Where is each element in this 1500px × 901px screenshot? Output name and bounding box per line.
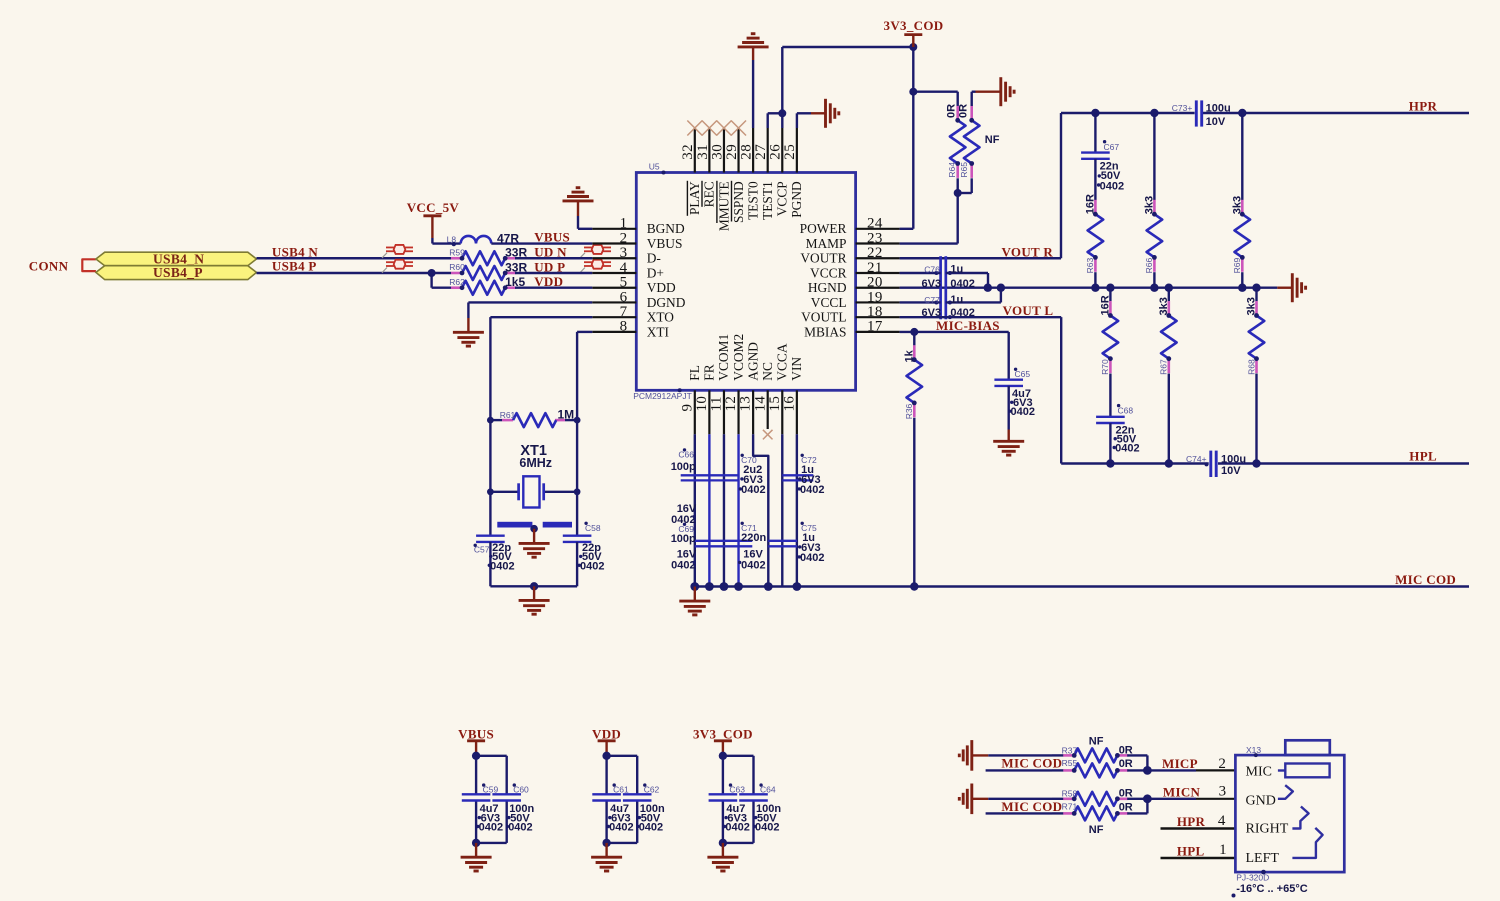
- wire (D+ pullup drop): [432, 273, 451, 288]
- svg-text:24: 24: [867, 216, 883, 232]
- net label MIC-BIAS: [936, 318, 1000, 333]
- wire VCCR (pin 21): [900, 271, 941, 275]
- svg-text:23: 23: [867, 230, 883, 246]
- port USB4_N: [96, 251, 257, 266]
- resistor R37 0R NF: [1052, 745, 1128, 762]
- svg-text:R71: R71: [1062, 802, 1078, 812]
- capacitor C73 100u: [1172, 100, 1202, 126]
- svg-text:X13: X13: [1246, 745, 1261, 755]
- svg-text:VOUTR: VOUTR: [800, 251, 846, 266]
- wire HPL rail: [1061, 459, 1469, 467]
- svg-text:R62: R62: [449, 277, 465, 287]
- svg-text:R58: R58: [1062, 789, 1078, 799]
- svg-text:10V: 10V: [1221, 465, 1241, 477]
- svg-text:0402: 0402: [609, 822, 633, 834]
- ground (pin 1 BGND): [563, 188, 594, 229]
- svg-text:0402: 0402: [1011, 406, 1035, 418]
- U5 bottom pin stubs 9-16: [695, 390, 797, 434]
- svg-text:HGND: HGND: [808, 280, 847, 295]
- svg-text:0402: 0402: [741, 559, 765, 571]
- capacitor C68 22n: [1096, 374, 1133, 464]
- svg-text:0402: 0402: [741, 484, 765, 496]
- net label VOUT R: [1002, 245, 1054, 260]
- svg-text:-16°C .. +65°C: -16°C .. +65°C: [1236, 883, 1308, 895]
- ground (3V3_COD group): [707, 857, 738, 871]
- wire crystal bottom: [490, 582, 577, 600]
- wire 3V3_COD top: [782, 43, 917, 51]
- svg-text:C67: C67: [1104, 142, 1120, 152]
- wire pin 16 column: [796, 434, 798, 586]
- resistor R71 0R NF: [1052, 802, 1128, 821]
- value 1u 6V3 0402 (C72): [798, 464, 825, 496]
- svg-text:U5: U5: [649, 162, 660, 172]
- wire UD_N (R59 to pin 3): [515, 257, 592, 259]
- svg-text:16: 16: [781, 396, 797, 412]
- svg-text:VCCR: VCCR: [810, 265, 847, 280]
- part number PJ-320D: [1236, 870, 1269, 883]
- wire AGND bottom rail / MIC COD line: [690, 582, 1469, 601]
- svg-text:MIC COD: MIC COD: [1001, 799, 1062, 814]
- svg-text:3V3_COD: 3V3_COD: [693, 726, 753, 741]
- svg-text:HPL: HPL: [1409, 449, 1437, 464]
- ground (pin 28 TEST0): [738, 34, 769, 128]
- svg-text:R37: R37: [1062, 745, 1078, 755]
- svg-text:SSPND: SSPND: [731, 181, 746, 223]
- wire C76 right to HGND: [946, 271, 988, 288]
- net label MIC COD (right): [1395, 572, 1456, 587]
- label XT1: [520, 443, 547, 459]
- power VBUS decoupling group: [458, 726, 534, 857]
- resistor R67 3k3: [1158, 288, 1177, 464]
- svg-text:3k3: 3k3: [1231, 196, 1243, 214]
- value 33R (R60): [505, 260, 527, 274]
- wire TEST1 jog (pin 27): [768, 113, 783, 128]
- resistor R70 16R: [1099, 288, 1118, 375]
- svg-text:0402: 0402: [639, 822, 663, 834]
- svg-text:REC: REC: [702, 181, 717, 207]
- net label MIC COD (upper): [1001, 755, 1062, 770]
- ground (PGND): [826, 99, 839, 128]
- resistor R36 1k: [903, 332, 922, 587]
- net label UD_P: [534, 259, 565, 274]
- svg-text:USB4 N: USB4 N: [272, 244, 319, 259]
- svg-text:2: 2: [620, 230, 628, 246]
- wire crystal right: [544, 420, 581, 495]
- wire VOUTR (pin 22): [900, 113, 1061, 258]
- svg-text:0402: 0402: [508, 822, 532, 834]
- wire UD_P (R60 to pin 4): [515, 272, 592, 274]
- capacitor C65 4u7: [994, 332, 1030, 441]
- value 0R (R55): [1119, 758, 1133, 770]
- crystal XT1: [519, 476, 544, 507]
- ground (DGND): [453, 332, 484, 346]
- svg-text:0402: 0402: [490, 560, 514, 572]
- U5 bottom pin names: [687, 334, 804, 381]
- svg-text:R67: R67: [1159, 359, 1169, 375]
- svg-text:PLAY: PLAY: [687, 181, 702, 215]
- svg-text:USB4_P: USB4_P: [153, 265, 203, 280]
- value 100p 16V 0402 (C69): [671, 533, 697, 572]
- net label USB4_P: [272, 259, 317, 274]
- svg-text:VIN: VIN: [789, 357, 804, 381]
- svg-text:R66: R66: [1144, 258, 1154, 274]
- svg-text:R68: R68: [1246, 359, 1256, 375]
- svg-text:POWER: POWER: [800, 221, 847, 236]
- net label USB4_N: [272, 244, 319, 259]
- ground (HGND): [1292, 273, 1305, 302]
- net label VBUS: [534, 229, 570, 244]
- svg-text:HPL: HPL: [1177, 843, 1205, 858]
- wire BGND (pin 1): [578, 228, 592, 230]
- svg-text:4: 4: [620, 260, 628, 276]
- svg-text:100u: 100u: [1206, 102, 1231, 114]
- ground (C65): [993, 441, 1024, 455]
- power VCC_5V: [407, 200, 460, 243]
- ground (MIC COD upper): [959, 740, 988, 771]
- value 1u 0402 (C77): [922, 294, 975, 319]
- svg-text:NF: NF: [1089, 736, 1104, 748]
- ground (VDD group): [591, 857, 622, 871]
- wire pin 13 column with jog: [753, 434, 768, 586]
- wire USB4_P: [257, 269, 452, 277]
- svg-text:VOUT R: VOUT R: [1002, 245, 1054, 260]
- wire MBIAS (pin 17): [900, 328, 1009, 336]
- value 4u7 6V3 0402 (C65): [1008, 388, 1035, 418]
- capacitor C76 1u plates: [941, 256, 946, 319]
- svg-text:VCCL: VCCL: [811, 295, 847, 310]
- svg-text:FR: FR: [702, 364, 717, 380]
- differential pair marker (USB4_P left): [382, 260, 413, 273]
- svg-text:0402: 0402: [1115, 443, 1139, 455]
- svg-text:VCCP: VCCP: [775, 181, 790, 216]
- value 22p 50V 0402 (C57): [488, 542, 515, 572]
- U5 right pin stubs 24-17: [856, 229, 900, 332]
- resistor R65 0R: [958, 104, 980, 178]
- capacitor C67 22n: [1081, 113, 1119, 159]
- U5 left pin numbers: [620, 216, 628, 335]
- net label HPR: [1409, 99, 1438, 114]
- svg-text:VOUT L: VOUT L: [1003, 303, 1054, 318]
- resistor R60 33R: [449, 262, 516, 280]
- power 3V3_COD: [884, 18, 944, 47]
- net label MIC COD (lower): [1001, 799, 1062, 814]
- U5 bottom pin numbers: [679, 396, 797, 412]
- svg-text:3V3_COD: 3V3_COD: [884, 18, 944, 33]
- svg-text:16R: 16R: [1099, 295, 1111, 315]
- wire pin 15 column: [781, 434, 783, 586]
- svg-text:R61: R61: [500, 410, 516, 420]
- resistor R55 0R: [1052, 758, 1128, 777]
- ground (VBUS group): [461, 857, 492, 871]
- svg-text:R70: R70: [1100, 359, 1110, 375]
- capacitors C69/C71 plates: [695, 541, 753, 547]
- svg-text:LEFT: LEFT: [1246, 851, 1280, 866]
- net label VOUT L: [1003, 303, 1054, 318]
- designator C75: [801, 522, 817, 533]
- capacitor C74 100u: [1186, 451, 1216, 477]
- svg-text:R60: R60: [449, 262, 465, 272]
- wire XTI (pin 8): [577, 332, 592, 420]
- differential pair marker (UD_P right): [580, 260, 611, 273]
- svg-text:1k: 1k: [903, 349, 915, 362]
- svg-text:0R: 0R: [1119, 801, 1133, 813]
- svg-text:0402: 0402: [1100, 180, 1124, 192]
- value 100u 10V (C74): [1221, 454, 1246, 477]
- svg-text:220n: 220n: [741, 532, 766, 544]
- temperature range label: [1232, 883, 1308, 898]
- svg-text:GND: GND: [1246, 794, 1276, 809]
- svg-text:NC: NC: [760, 362, 775, 381]
- designator C66: [678, 448, 694, 459]
- svg-text:0402: 0402: [800, 552, 824, 564]
- svg-text:8: 8: [620, 319, 628, 335]
- label NF (R37): [1089, 736, 1104, 748]
- U5 top pin numbers: [680, 144, 798, 160]
- designator C71: [741, 522, 757, 533]
- svg-text:3k3: 3k3: [1158, 297, 1170, 315]
- svg-text:0R: 0R: [958, 104, 970, 118]
- wire pin 10 column: [708, 434, 710, 586]
- capacitors C66/C70 plates: [681, 475, 739, 480]
- value 22n 50V 0402 (C67): [1097, 161, 1124, 193]
- svg-text:100p: 100p: [671, 461, 696, 473]
- svg-text:0R: 0R: [946, 104, 958, 118]
- wire USB4_N: [257, 257, 452, 259]
- value 1u 0402 (C76): [922, 263, 975, 290]
- svg-text:D+: D+: [647, 265, 664, 280]
- svg-text:R69: R69: [1232, 258, 1242, 274]
- svg-text:VDD: VDD: [592, 726, 621, 741]
- svg-text:3: 3: [1219, 784, 1227, 800]
- resistor R66 3k3: [1143, 113, 1162, 288]
- resistor R61 1M: [487, 410, 580, 427]
- svg-text:D-: D-: [647, 251, 661, 266]
- svg-text:VDD: VDD: [647, 280, 676, 295]
- net label UD_N: [534, 245, 567, 260]
- svg-text:0402: 0402: [671, 559, 695, 571]
- svg-text:VOUTL: VOUTL: [801, 310, 846, 325]
- svg-text:VBUS: VBUS: [647, 236, 683, 251]
- svg-text:VCC_5V: VCC_5V: [407, 200, 460, 215]
- no-ERC marks pins 29-32: [687, 121, 746, 136]
- jack pin name MIC: [1246, 765, 1272, 780]
- svg-text:TEST0: TEST0: [745, 181, 760, 220]
- svg-text:MIC COD: MIC COD: [1395, 572, 1456, 587]
- wire HPR rail: [1061, 109, 1469, 117]
- svg-text:1: 1: [620, 216, 628, 232]
- wire MICP join: [1127, 755, 1196, 774]
- value 100p 16V 0402 (C66): [671, 461, 697, 526]
- pin 4 (jack RIGHT): [1161, 813, 1236, 829]
- svg-text:100p: 100p: [671, 533, 696, 545]
- designator C69: [678, 523, 694, 534]
- svg-text:3: 3: [620, 245, 628, 261]
- designator C72: [801, 454, 817, 465]
- wire crystal left: [487, 420, 519, 495]
- jack pin name LEFT: [1246, 851, 1280, 866]
- svg-text:MIC COD: MIC COD: [1001, 755, 1062, 770]
- wire to R37: [988, 754, 1052, 756]
- wire VBUS (VCC_5V to L8): [432, 242, 460, 244]
- value 22p 50V 0402 (C58): [578, 542, 605, 572]
- svg-text:17: 17: [867, 319, 883, 335]
- wire DGND (pin 6): [468, 302, 592, 332]
- svg-text:VCOM1: VCOM1: [716, 334, 731, 381]
- resistor R64 0R: [946, 104, 966, 178]
- differential pair marker (USB4_N left): [382, 245, 413, 258]
- resistor R69 3k3: [1231, 113, 1250, 288]
- svg-text:20: 20: [867, 275, 883, 291]
- svg-text:C73+: C73+: [1172, 103, 1193, 113]
- resistor R63 16R: [1084, 194, 1103, 288]
- svg-text:0R: 0R: [1119, 787, 1133, 799]
- net label MICP: [1162, 756, 1198, 771]
- svg-text:VCOM2: VCOM2: [731, 334, 746, 381]
- connector X13 PJ-320D body: [1235, 740, 1344, 872]
- svg-text:HPR: HPR: [1409, 99, 1438, 114]
- value 100u 10V (C73): [1206, 102, 1231, 128]
- designator X13: [1246, 745, 1261, 757]
- svg-text:MBIAS: MBIAS: [804, 324, 846, 339]
- value 220n 16V 0402 (C71): [738, 532, 766, 572]
- ground (MIC COD lower): [959, 784, 988, 815]
- resistor R68 3k3: [1246, 288, 1265, 464]
- svg-text:FL: FL: [687, 365, 702, 381]
- value 0R (R37): [1119, 744, 1133, 756]
- power 3V3_COD decoupling group: [693, 726, 781, 857]
- resistor R58 0R: [1052, 789, 1128, 806]
- svg-text:5: 5: [620, 275, 628, 291]
- svg-text:100u: 100u: [1221, 454, 1246, 466]
- designator C76: [924, 264, 940, 274]
- svg-text:R59: R59: [449, 247, 465, 257]
- no-ERC mark pin 14: [763, 430, 773, 440]
- label NF (R71): [1089, 824, 1104, 836]
- svg-text:6: 6: [620, 289, 628, 305]
- svg-text:21: 21: [867, 260, 883, 276]
- svg-text:3k3: 3k3: [1246, 297, 1258, 315]
- designator U5: [649, 162, 666, 175]
- port USB4_P: [96, 265, 257, 280]
- U5 pin name overlines: [687, 181, 731, 223]
- U5 top pin stubs 32-25: [695, 128, 797, 173]
- capacitor C75 plates: [768, 541, 797, 547]
- svg-text:0402: 0402: [950, 278, 974, 290]
- svg-text:7: 7: [620, 304, 628, 320]
- connector CONN: [29, 259, 96, 274]
- svg-text:18: 18: [867, 304, 883, 320]
- svg-text:6MHz: 6MHz: [519, 456, 552, 470]
- svg-text:1u: 1u: [950, 294, 963, 306]
- svg-text:0402: 0402: [580, 560, 604, 572]
- ground (bottom rail): [679, 601, 710, 615]
- label NF (R64/R65): [985, 134, 1000, 146]
- svg-text:PGND: PGND: [789, 181, 804, 218]
- net label MICN: [1163, 785, 1201, 800]
- net label HPL: [1409, 449, 1437, 464]
- capacitor C58 22p: [563, 492, 601, 587]
- svg-text:XTI: XTI: [647, 324, 669, 339]
- wire MIC COD (R55): [986, 769, 1052, 771]
- wire to R58: [988, 798, 1052, 800]
- ground (crystal case): [519, 543, 550, 557]
- svg-text:R63: R63: [1085, 258, 1095, 274]
- wire R64/R65 bottom to MAMP pin 23: [900, 178, 972, 243]
- svg-text:0402: 0402: [755, 822, 779, 834]
- svg-text:MICN: MICN: [1163, 785, 1201, 800]
- designator C77: [924, 295, 940, 305]
- wire pin 9 column: [694, 434, 696, 586]
- svg-text:R65: R65: [959, 162, 969, 178]
- svg-text:XTO: XTO: [647, 310, 675, 325]
- svg-text:C77: C77: [924, 295, 940, 305]
- jack pin name GND: [1246, 794, 1276, 809]
- IC U5 PCM2912APJT body: [636, 173, 855, 391]
- capacitor C72 plates: [782, 475, 813, 480]
- wire MIC COD (R71): [986, 812, 1052, 814]
- wire 3V3_COD to POWER pin 24: [900, 47, 918, 229]
- wire C67 to R63: [1094, 159, 1096, 200]
- svg-text:10V: 10V: [1206, 116, 1226, 128]
- svg-text:MIC: MIC: [1246, 765, 1272, 780]
- svg-text:4: 4: [1218, 813, 1226, 829]
- svg-text:DGND: DGND: [647, 295, 686, 310]
- value 22n 50V 0402 (C68): [1113, 424, 1140, 454]
- wire C77 right to HGND: [946, 288, 1001, 305]
- wire VDD (R62 to pin 5): [515, 287, 592, 289]
- svg-text:VCCA: VCCA: [775, 343, 790, 381]
- svg-text:RIGHT: RIGHT: [1246, 822, 1289, 837]
- crystal case strap: [497, 522, 572, 544]
- svg-text:19: 19: [867, 289, 883, 305]
- wire PGND (pin 25): [797, 113, 826, 128]
- svg-text:USB4_N: USB4_N: [153, 251, 204, 266]
- svg-text:C74+: C74+: [1186, 454, 1207, 464]
- svg-text:0402: 0402: [725, 822, 749, 834]
- svg-text:C76: C76: [924, 264, 940, 274]
- svg-text:NF: NF: [985, 134, 1000, 146]
- svg-text:MIC-BIAS: MIC-BIAS: [936, 318, 1000, 333]
- svg-text:R55: R55: [1062, 758, 1078, 768]
- U5 right pin names: [800, 221, 847, 339]
- wire R64 top: [913, 92, 957, 106]
- value 1k5 (R62): [505, 275, 525, 289]
- svg-text:MAMP: MAMP: [806, 236, 847, 251]
- resistor R62 1k5: [449, 277, 516, 295]
- resistor R59 33R: [449, 247, 516, 265]
- capacitor C57 22p: [474, 492, 505, 587]
- value 1u 6V3 0402 (C75): [798, 532, 825, 564]
- pin 1 (jack LEFT): [1161, 842, 1236, 858]
- value 6MHz: [519, 456, 552, 470]
- wire VCCP riser: [778, 47, 786, 128]
- svg-text:0402: 0402: [479, 822, 503, 834]
- svg-text:R36: R36: [904, 403, 914, 419]
- svg-text:6V3: 6V3: [922, 278, 942, 290]
- svg-text:MMUTE: MMUTE: [716, 181, 731, 231]
- part number PCM2912APJT: [633, 388, 692, 401]
- wire pin 11 column: [723, 434, 725, 586]
- wire VCCL (pin 19): [900, 300, 941, 304]
- svg-text:VBUS: VBUS: [534, 229, 570, 244]
- wire XTO (pin 7): [490, 317, 592, 420]
- inductor L8: [447, 234, 492, 246]
- svg-text:0R: 0R: [1119, 758, 1133, 770]
- designator C70: [741, 454, 757, 465]
- value 0R (R58): [1119, 787, 1133, 799]
- svg-text:1: 1: [1219, 842, 1227, 858]
- svg-text:PCM2912APJT: PCM2912APJT: [633, 391, 692, 401]
